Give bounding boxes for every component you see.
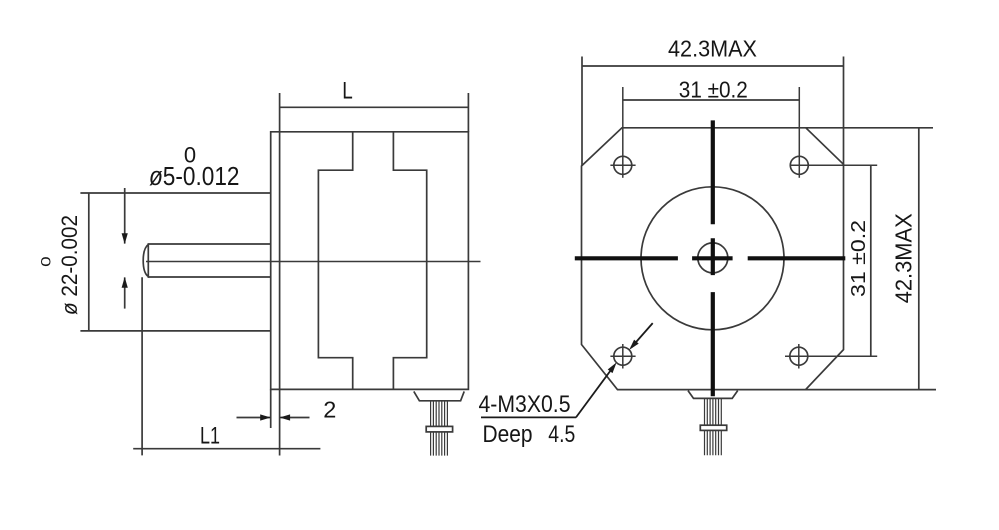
horizontal thick centerline [575,256,846,260]
svg-text:2: 2 [323,396,336,422]
leader arrowhead at BL hole upper-right [629,340,639,350]
svg-text:ø5-0.012: ø5-0.012 [149,163,240,191]
svg-text:L1: L1 [200,422,220,449]
2mm dim left arrowhead [260,414,271,420]
2mm dim left arrow line [237,417,271,419]
svg-text:Deep: Deep [483,421,533,448]
mounting hole bottom-right [790,347,808,365]
2mm dim right arrow line [280,417,310,419]
svg-text:4.5: 4.5 [548,421,575,448]
motor body outline (side view) [271,132,469,390]
leader line upper segment [631,323,653,348]
42.3MAX top left extension [581,57,583,167]
hole BL horizontal crosshair [610,355,635,357]
front view cable tie collar [700,425,726,430]
leader line lower segment to BL hole [576,366,614,418]
stator spool inner contour left [318,132,352,390]
svg-text:0: 0 [38,256,53,267]
front view wire bundle upper [705,398,722,425]
svg-text:42.3MAX: 42.3MAX [668,36,757,62]
pilot boss circle phi22 [641,187,784,330]
svg-text:31 ±0.2: 31 ±0.2 [679,76,748,102]
side view wire bundle upper [431,401,448,427]
42.3MAX right vertical dimension line [918,128,920,390]
phi22 upper extension line [80,192,270,194]
arrowhead phi5 upper [122,233,128,244]
flange bottom edge extension (42.3MAX right vertical dim) [806,389,936,391]
hole BR vertical crosshair [798,344,800,369]
side view wire bundle lower [431,432,448,456]
42.3MAX top dimension line [582,65,844,67]
hole TR vertical crosshair + 31 dim extension [798,87,800,178]
svg-text:4-M3X0.5: 4-M3X0.5 [479,391,571,418]
dimension L line [280,106,469,108]
31 +-0.2 right vertical dimension line [870,165,872,356]
phi22 lower extension line [80,330,270,332]
shaft bottom line [148,276,271,278]
front face extension line below body (for 2 dim) [270,389,272,428]
dimension line for shaft diameter (phi5) lower [124,277,126,308]
svg-text:42.3MAX: 42.3MAX [891,213,917,303]
mounting hole bottom-left [614,347,632,365]
L1 dimension line [133,448,320,450]
hole TL horizontal crosshair [610,164,635,166]
dimension L right extension [467,93,469,132]
L1 left extension line (shaft end) [141,277,143,455]
31 +-0.2 top dimension line [623,99,800,101]
front view lead-wire exit trapezoid [688,391,738,399]
side view lead-wire exit trapezoid [414,391,464,400]
stator spool inner contour right [393,132,426,390]
shaft centerline [146,261,481,263]
flange top edge extension (42.3MAX right vertical dim) [806,127,933,129]
svg-text:ø 22-0.002: ø 22-0.002 [57,215,82,315]
svg-text:L: L [342,78,353,105]
shaft circle phi5 [698,243,728,273]
svg-text:31 ±0.2: 31 ±0.2 [847,220,870,297]
mounting hole top-left [614,156,632,174]
hole BR horizontal crosshair + right 31 dim extension [785,355,877,357]
arrowhead phi5 lower [122,277,128,288]
2mm dim right arrowhead [280,414,291,420]
42.3MAX top right extension [843,57,845,165]
shaft end face [143,244,148,276]
leader arrowhead at BL hole lower-left [608,362,617,373]
side view cable tie collar [426,426,452,432]
mounting hole top-right [790,156,808,174]
vertical thick centerline [711,120,715,396]
front view wire bundle lower [705,430,722,455]
phi22 dimension line [88,193,90,331]
hole BL vertical crosshair [622,344,624,369]
hole TL vertical crosshair + 31 dim extension [622,87,624,178]
front end-cap edge with L / 2 / L1 extension line [279,93,281,456]
dimension line for shaft diameter (phi5) upper [124,188,126,244]
label underline [481,416,576,418]
shaft top line [148,243,271,245]
front view flange outline with chamfered corners [582,128,844,390]
hole TR horizontal crosshair + right 31 dim extension [791,164,877,166]
